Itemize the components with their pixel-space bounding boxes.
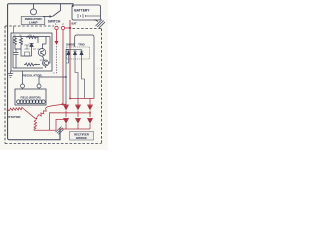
- wire: phase A continue to column1: [63, 103, 66, 106]
- svg-text:DIODE: DIODE: [66, 42, 75, 46]
- wire: riser to short crossbar (col1): [56, 119, 66, 130]
- rectifier bottom bus: [60, 124, 90, 129]
- wire: inner top rail: [13, 36, 50, 38]
- ground: rectifier ground: [56, 127, 64, 135]
- node W branch tap on left wire: [7, 109, 9, 111]
- wire: regulator to left brush: [22, 71, 24, 84]
- ground: regulator ground: [8, 71, 13, 77]
- trio bus: [66, 49, 82, 51]
- svg-text:BATTERY: BATTERY: [74, 8, 90, 12]
- svg-text:BAT: BAT: [72, 22, 78, 26]
- node phase junction col3: [89, 112, 91, 114]
- wire: trio output down-left to brush line: [66, 50, 69, 105]
- svg-text:TR2: TR2: [40, 60, 44, 62]
- trio diode 3: [80, 50, 84, 55]
- arrow terminal1: [55, 41, 59, 45]
- regulator box: [11, 33, 52, 71]
- brush circle right: [37, 84, 41, 88]
- rectifier diode T3: [87, 105, 93, 111]
- diode trio dashed box: [67, 47, 90, 59]
- node phase junction col1: [65, 119, 67, 121]
- rectifier diode B2: [75, 118, 81, 124]
- wire: trio lead1 down: [66, 59, 69, 63]
- svg-text:STATOR: STATOR: [8, 115, 21, 119]
- transistor TR2: [43, 60, 49, 66]
- wire: phase A to rectifier col1: [47, 104, 63, 107]
- svg-text:BRIDGE: BRIDGE: [76, 136, 87, 140]
- wire: terminal1 lead with arrow into regulator: [56, 30, 58, 42]
- wire: bus drops: [78, 99, 90, 106]
- regulator internals: [13, 36, 50, 68]
- wire: battery output (red) down to rectifier bus: [69, 20, 71, 99]
- wire: trio lead2 elbow: [75, 59, 78, 99]
- wire: left long wire down to bottom and to rectifier ground: [8, 30, 60, 140]
- svg-text:TRIO: TRIO: [78, 42, 84, 46]
- svg-text:R1: R1: [13, 35, 15, 37]
- trio diode 2: [73, 50, 77, 55]
- stator winding NE branch: [37, 107, 47, 117]
- diode D1: [30, 44, 34, 47]
- ground: battery ground: [95, 20, 106, 29]
- svg-text:R3: R3: [29, 35, 31, 37]
- capacitor C1: [14, 49, 19, 58]
- stator winding S branch: [34, 120, 37, 131]
- node stator center: [35, 118, 37, 120]
- svg-text:TR1: TR1: [37, 49, 41, 51]
- node trio-brush junction: [65, 76, 67, 78]
- wire: horseshoe top: [75, 35, 94, 99]
- wire: brush stems: [23, 88, 40, 89]
- terminal 1: [55, 26, 58, 29]
- rectifier diode T2: [75, 105, 81, 111]
- terminal 2: [61, 26, 64, 29]
- svg-text:R2: R2: [19, 35, 21, 37]
- wire: mid connections: [21, 47, 32, 57]
- trio diode 1: [67, 50, 71, 55]
- battery B1: [72, 5, 101, 20]
- wire: tick from case to regulator top: [13, 26, 15, 33]
- resistor R3 (horizontal zigzag top): [26, 36, 38, 39]
- rectifier diode B3: [87, 118, 93, 124]
- label: INDICATOR LAMP: [21, 17, 45, 25]
- node BAT junction: [69, 27, 71, 29]
- svg-text:LAMP: LAMP: [29, 21, 38, 25]
- rectifier diode T1: [63, 105, 69, 111]
- brush circle left: [21, 84, 25, 88]
- wire: riser to long crossbar (col3): [50, 113, 91, 131]
- node BAT-bus junction: [69, 98, 71, 100]
- rectifier top bus: [70, 98, 94, 100]
- resistor R1 (vertical zigzag): [14, 37, 17, 48]
- rectifier diode B1: [63, 118, 69, 124]
- wire: terminal2 long red wire down left of diode trio: [62, 30, 64, 104]
- svg-text:FIELD (ROTOR): FIELD (ROTOR): [21, 96, 41, 100]
- resistor R2 (vertical zigzag): [20, 37, 23, 48]
- wire: dashed link from terminal1 arrow to regulator: [52, 46, 57, 73]
- wire: S branch bottom run: [34, 129, 56, 131]
- node phase A junction with wire2: [61, 103, 63, 105]
- field box: [15, 89, 46, 105]
- alternator case (dashed): [5, 26, 102, 144]
- wire: trio lead3 elbow: [82, 59, 85, 99]
- wire: R1 R2 bottom join: [15, 47, 21, 49]
- field coil: [17, 100, 46, 104]
- switch S1: [43, 4, 61, 18]
- regulator misc components: [22, 41, 36, 56]
- resistor R4 (horizontal zigzag bottom): [24, 63, 36, 66]
- wire: inner bottom rail: [13, 37, 50, 69]
- zener diode D2: [22, 41, 36, 49]
- stator winding W branch (to left wire): [8, 107, 35, 118]
- transistor TR1: [38, 49, 46, 57]
- wire: right brush up and right to trio output line: [39, 77, 66, 84]
- regulator tiny labels: [13, 35, 43, 62]
- wire: top feed wire from left side to battery: [8, 4, 73, 30]
- label RECTIFIER BRIDGE: [70, 132, 94, 141]
- indicator lamp IL1: [31, 9, 37, 15]
- wire: terminal2 to BAT line: [65, 27, 70, 29]
- wire: mid column links: [66, 111, 90, 117]
